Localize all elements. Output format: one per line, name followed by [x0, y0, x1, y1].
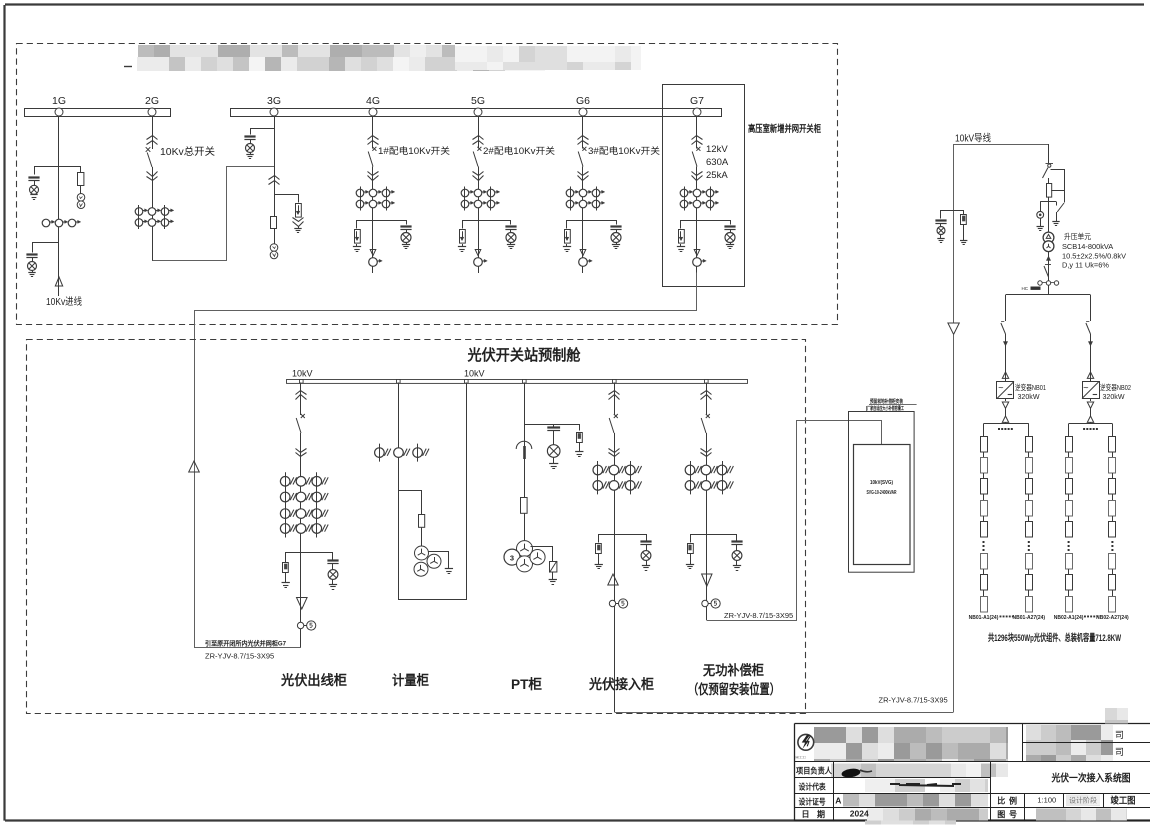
PT cabinet branch wire — [525, 425, 580, 431]
capacitor on 3G branch — [244, 135, 255, 137]
svg-text:4G: 4G — [366, 95, 380, 107]
svg-text:H□□□: H□□□ — [796, 755, 807, 760]
lamp indicator on 1G left branch — [30, 185, 39, 194]
metering branch wire — [399, 491, 422, 515]
title block horizontal line row4 — [795, 807, 1150, 809]
svg-text:12kV: 12kV — [706, 144, 728, 155]
fuse on line tap right — [961, 215, 967, 225]
incoming line arrow on 1G — [55, 277, 62, 286]
bus tap circle G6 — [579, 108, 587, 116]
bus tap circle 5G — [474, 108, 482, 116]
lamp indicator on 5G branch — [506, 233, 516, 243]
PV access cabinet drawout chevrons lower — [609, 449, 620, 453]
HV-room dashed enclosure — [17, 44, 838, 325]
PV module string NB01-A27(24) — [1026, 437, 1033, 453]
CT bank 2x3 on feeder G6 — [566, 189, 574, 197]
PV outgoing cabinet main wire — [300, 433, 302, 648]
svg-text:厂家自适应大小补偿容量工: 厂家自适应大小补偿容量工 — [867, 405, 904, 412]
outgoing arrow on feeder G6 — [580, 250, 586, 256]
feeder 2G wire lower — [152, 167, 154, 261]
drawout contact chevrons G7 lower — [692, 172, 703, 176]
CT bank 2x3 on feeder G7 — [680, 189, 688, 197]
cable head arrow on 10kV line — [948, 323, 959, 334]
CT bank with hatch marks on metering cabinet — [375, 448, 385, 458]
inverter split busbar wire — [1006, 294, 1091, 296]
svg-text:（仅预留安装位置）: （仅预留安装位置） — [688, 681, 780, 697]
censored block above title block corner — [1105, 708, 1128, 724]
outgoing arrow on feeder 4G — [370, 250, 376, 256]
censored project leader row blocks — [831, 764, 1008, 778]
branch wire on feeder 5G — [463, 221, 511, 229]
feeder 2G wire upper — [152, 116, 154, 149]
PV outgoing cabinet breaker x-mark — [301, 414, 305, 418]
feeder 1G lower branch wire — [33, 243, 59, 253]
inverter box inverter NB02 — [1083, 382, 1100, 399]
svg-text:光伏出线柜: 光伏出线柜 — [280, 672, 347, 688]
routing cable from PV access cabinet to PV field — [615, 712, 954, 714]
ground below 4G lamp — [406, 243, 408, 245]
surge arrester on 4G branch — [355, 230, 361, 244]
capacitor on 1G lower branch — [26, 253, 37, 255]
svg-text:图: 图 — [997, 810, 1005, 819]
inverter NB02 DC wire — [1090, 408, 1092, 416]
feeder 3G left branch wire — [251, 129, 275, 135]
svg-text:竣工图: 竣工图 — [1111, 795, 1136, 806]
ground below 3G arrester — [298, 226, 300, 228]
outgoing CT on feeder 4G — [369, 258, 378, 267]
svg-text:设计阶段: 设计阶段 — [1069, 796, 1097, 805]
bus tap square compensation — [705, 380, 709, 384]
svg-text:日: 日 — [802, 810, 810, 819]
feeder G7 wire lower — [696, 167, 698, 274]
svg-text:A: A — [835, 796, 841, 806]
inverter NB01 string header wire — [984, 423, 1029, 425]
svg-text:ZR-YJV-8.7/15-3X95: ZR-YJV-8.7/15-3X95 — [205, 652, 274, 661]
capacitor on PV outgoing cabinet branch right — [327, 559, 338, 561]
routing wire from G7 down to PV outgoing cabinet — [195, 273, 697, 648]
capacitor on PT branch — [547, 426, 560, 428]
compensation cabinet drawout chevrons lower — [701, 449, 712, 453]
svg-text:设计证号: 设计证号 — [799, 797, 826, 807]
dots between string labels right — [1084, 616, 1086, 618]
feeder G6 wire lower — [582, 167, 584, 274]
inverter NB01 branch wire upper — [1005, 295, 1007, 321]
CT bank 2x3 on feeder 4G — [356, 189, 364, 197]
svg-text:10Kv进线: 10Kv进线 — [46, 295, 82, 308]
arrow below inverter NB01 box — [1005, 399, 1007, 402]
ground below PT branch fuse — [579, 442, 581, 452]
svg-text:NB01-A1(24): NB01-A1(24) — [969, 615, 999, 621]
ground below PV outgoing cabinet branch lamp — [332, 580, 334, 585]
svg-text:1G: 1G — [52, 95, 66, 107]
svg-text:320kW: 320kW — [1103, 392, 1125, 401]
title block vertical line right section — [990, 762, 992, 821]
ground below line tap fuse — [963, 225, 965, 241]
ground below 5G arrester — [462, 244, 464, 247]
tap branch header wire — [1040, 201, 1056, 203]
svg-text:预留就地补偿柜安装: 预留就地补偿柜安装 — [870, 398, 903, 405]
cable arrow on compensation cabinet — [702, 574, 712, 586]
svg-text:10kV: 10kV — [292, 369, 313, 379]
fuse F1 on 1G right branch — [78, 173, 84, 186]
svg-text:设计代表: 设计代表 — [799, 782, 827, 792]
G7 cabinet outline box — [663, 85, 745, 287]
svg-text:号: 号 — [1009, 810, 1017, 819]
compensation cabinet wire upper — [706, 383, 708, 416]
PV access cabinet breaker x-mark — [614, 414, 618, 418]
ground below 5G lamp — [510, 243, 512, 245]
ground below G6 arrester — [566, 244, 568, 247]
PV access cabinet instrument branch wire — [599, 535, 647, 543]
PV station 10kV busbar — [287, 380, 748, 384]
svg-text:升压单元: 升压单元 — [1064, 231, 1091, 241]
breaker blade 5G — [473, 152, 478, 167]
fuse on transformer branch — [1047, 184, 1052, 198]
voltage transformer PT on 1G right branch — [77, 194, 85, 202]
feeder 5G wire lower — [478, 167, 480, 274]
ground below G7 arrester — [680, 244, 682, 247]
10kV line vertical wire down — [953, 144, 955, 323]
PV access cabinet main wire — [614, 433, 616, 712]
svg-text:NB01-A27(24): NB01-A27(24) — [1013, 615, 1046, 621]
breaker contact x-mark G7 — [696, 147, 700, 151]
ground below 4G arrester — [356, 244, 358, 247]
feeder 1G main wire — [58, 116, 60, 296]
lamp on PT branch — [547, 445, 560, 458]
energy meter on compensation cabinet — [702, 600, 708, 606]
PT group arrester wire — [531, 547, 553, 562]
svg-text:ZR-YJV-8.7/15-3X95: ZR-YJV-8.7/15-3X95 — [724, 611, 793, 620]
feeder G7 wire upper — [696, 116, 698, 149]
title block vertical label column line — [833, 762, 835, 821]
LV switch blade — [1045, 264, 1051, 266]
inverter NB02 branch wire upper — [1090, 295, 1092, 321]
svg-text:无功补偿柜: 无功补偿柜 — [702, 662, 764, 678]
bus tap circle 4G — [369, 108, 377, 116]
inverter NB02 string header wire — [1069, 423, 1113, 425]
drawout contact chevrons 2G lower — [147, 172, 158, 177]
busbar 3G-G7 — [231, 109, 722, 117]
indicator on tap branch — [1037, 211, 1044, 218]
surge arrester on 5G branch — [460, 230, 466, 244]
voltage transformer PT on 3G — [270, 244, 278, 252]
bus tap circle G7 — [693, 108, 701, 116]
inverter NB02 branch blade switch — [1086, 321, 1089, 323]
PV switching station dashed enclosure — [27, 340, 806, 714]
dots between inverter NB02 strings — [1083, 428, 1085, 430]
compensation cabinet breaker blade — [701, 418, 706, 433]
ground below 3G lamp — [250, 153, 252, 155]
bus tap circle 2G — [148, 108, 156, 116]
svg-text:共1296块550Wp光伏组件、总装机容量712.8KW: 共1296块550Wp光伏组件、总装机容量712.8KW — [988, 632, 1121, 644]
svg-text:项目负责人: 项目负责人 — [796, 766, 833, 776]
breaker blade 4G — [368, 152, 373, 167]
bus tap circle 3G — [270, 108, 278, 116]
outgoing CT on feeder G7 — [693, 258, 702, 267]
feeder 3G main wire — [274, 116, 276, 244]
signature blob project leader — [841, 768, 861, 779]
breaker blade G6 — [578, 152, 583, 167]
lamp on line tap — [940, 224, 942, 227]
svg-text:司: 司 — [1115, 730, 1124, 740]
svg-text:1:100: 1:100 — [1037, 796, 1056, 805]
surge arrester on 3G right branch — [296, 204, 302, 218]
PV access cabinet breaker blade — [609, 418, 614, 433]
svg-text:G7: G7 — [690, 95, 704, 107]
svg-text:PT柜: PT柜 — [511, 676, 542, 692]
10kV line wire to PV access cable — [953, 334, 955, 712]
fuse on PT cabinet — [521, 498, 528, 514]
feeder 3G right branch wire — [275, 195, 299, 203]
metering VT ground wire — [429, 552, 449, 569]
censored drawing number blocks — [1036, 809, 1127, 821]
inverter NB01 branch blade switch — [1001, 321, 1004, 323]
arrow above inverter NB01 — [1002, 372, 1008, 378]
svg-text:~: ~ — [1083, 383, 1088, 393]
svg-text:10kV: 10kV — [464, 369, 485, 379]
breaker blade 2G — [147, 153, 152, 168]
surge arrester of PT group — [550, 562, 557, 573]
svg-text:光伏一次接入系统图: 光伏一次接入系统图 — [1051, 772, 1131, 785]
ground below compensation cabinet branch lamp — [736, 561, 738, 566]
routing wire from 2G to 3G — [153, 167, 275, 261]
CT bank 2x3 on feeder 2G — [135, 208, 143, 216]
svg-text:NB02-A1(24): NB02-A1(24) — [1054, 615, 1084, 621]
feeder 1G upper branch wire — [35, 167, 81, 175]
10kV line horizontal wire — [954, 144, 1050, 146]
transformer branch wire lower — [1048, 197, 1050, 233]
ground of PT group arrester — [549, 579, 557, 581]
ground below 1G lamp — [34, 193, 36, 196]
svg-text:1#配电10Kv开关: 1#配电10Kv开关 — [378, 145, 450, 156]
breaker contact x-mark G6 — [582, 147, 586, 151]
svg-text:引至原开闭所内光伏并网柜G7: 引至原开闭所内光伏并网柜G7 — [205, 639, 286, 648]
PV outgoing cabinet drawout chevrons upper — [296, 391, 307, 395]
svg-text:NB02-A27(24): NB02-A27(24) — [1096, 615, 1129, 621]
ground below PT branch lamp — [553, 457, 555, 463]
up arrow on LV wire — [1046, 256, 1050, 261]
disconnect switch on transformer branch — [1046, 163, 1054, 165]
PV access cabinet wire upper — [614, 383, 616, 416]
capacitor on compensation cabinet branch right — [731, 540, 742, 542]
drawout contact chevrons 5G lower — [473, 172, 484, 176]
bypass loop wire — [1051, 170, 1065, 203]
CT bank 2x3 on feeder 5G — [461, 189, 469, 197]
ground below G7 lamp — [730, 243, 732, 245]
SVG note underline — [869, 404, 917, 406]
censored title pixel blocks — [137, 45, 641, 71]
svg-text:高压室新增并网开关柜: 高压室新增并网开关柜 — [748, 123, 821, 135]
cable arrow on PV outgoing cabinet — [297, 598, 308, 610]
company logo circle with lightning — [798, 734, 814, 750]
PV access cabinet drawout chevrons upper — [609, 391, 620, 395]
compensation cabinet drawout chevrons upper — [701, 391, 712, 395]
ground below line tap lamp — [940, 235, 942, 239]
feeder 4G wire lower — [372, 167, 374, 274]
PV outgoing cabinet breaker blade — [296, 418, 301, 433]
lamp indicator on G6 branch — [611, 233, 621, 243]
PV module string NB02-A27(24) — [1109, 437, 1116, 453]
svg-text:10Kv总开关: 10Kv总开关 — [160, 145, 215, 158]
fuse on PT branch right — [577, 433, 583, 443]
svg-text:计量柜: 计量柜 — [392, 672, 429, 688]
branch wire on feeder G7 — [681, 221, 731, 229]
fuse on PV access cabinet branch left — [596, 544, 602, 554]
PV outgoing cabinet instrument branch wire — [286, 553, 333, 563]
metering cabinet loop wire — [399, 383, 467, 600]
svg-text:D,y 11 Uk=6%: D,y 11 Uk=6% — [1062, 261, 1109, 270]
svg-text:630A: 630A — [706, 157, 729, 168]
breaker contact x-mark 5G — [477, 147, 481, 151]
dots between string labels left — [1000, 616, 1002, 618]
outgoing arrow on feeder G7 — [694, 250, 700, 256]
transformer LV wire — [1048, 252, 1050, 293]
bus tap square access — [613, 380, 617, 384]
bus tap square metering-left — [397, 380, 401, 384]
svg-text:司: 司 — [1115, 747, 1124, 757]
svg-text:光伏接入柜: 光伏接入柜 — [588, 676, 654, 692]
censored design representative row blocks — [865, 779, 988, 792]
title block horizontal line row1 — [795, 761, 1150, 763]
title block horizontal line row2 — [795, 777, 990, 779]
wire to G7 junction — [194, 647, 301, 649]
capacitor on 1G left branch — [28, 176, 39, 178]
lamp indicator on 3G branch — [246, 144, 255, 153]
fuse on metering branch — [419, 515, 425, 528]
outgoing CT on feeder G6 — [579, 258, 588, 267]
energy meter on PV access cabinet — [609, 600, 615, 606]
PV outgoing cabinet drawout chevrons lower — [296, 449, 307, 453]
ground below indicator — [1040, 218, 1042, 226]
svg-text:SCB14-800kVA: SCB14-800kVA — [1062, 242, 1113, 251]
svg-text:10.5±2x2.5%/0.8kV: 10.5±2x2.5%/0.8kV — [1062, 251, 1126, 260]
svg-text:G6: G6 — [576, 95, 590, 107]
breaker contact x-mark 4G — [372, 147, 376, 151]
line tap branch wire — [941, 211, 964, 219]
drawout contact chevrons G6 upper — [578, 136, 589, 140]
incoming arrow on G7 routing wire — [189, 461, 200, 472]
bus tap circle 1G — [55, 108, 63, 116]
fuse on compensation cabinet branch left — [688, 544, 694, 554]
lamp on PV access cabinet branch right — [641, 551, 651, 561]
svg-text:HC: HC — [1022, 286, 1029, 291]
inverter NB02 branch wire mid — [1090, 334, 1092, 382]
svg-text:3G: 3G — [267, 95, 281, 107]
feeder G6 wire upper — [582, 116, 584, 149]
CT bank with hatch marks on PV outgoing cabinet — [280, 477, 290, 487]
bus tap square metering-right — [465, 380, 469, 384]
svg-text:25kA: 25kA — [706, 170, 728, 181]
PT cabinet main wire — [524, 383, 526, 542]
CT bank with hatch marks on compensation cabinet — [685, 465, 695, 475]
dots between inverter NB01 strings — [998, 428, 1000, 430]
svg-text:~: ~ — [998, 383, 1003, 393]
inverter NB01 DC wire — [1005, 408, 1007, 416]
svg-text:期: 期 — [817, 809, 825, 819]
drawout contact chevrons 2G upper — [147, 136, 158, 140]
fuse on feeder 3G — [271, 217, 277, 229]
inverter box inverter NB01 — [997, 382, 1014, 399]
bypass blade — [1057, 203, 1064, 212]
metering 3-winding voltage transformer — [415, 546, 429, 560]
SVG unit outer box — [849, 412, 915, 573]
svg-text:10kV(SVG): 10kV(SVG) — [870, 480, 893, 486]
transformer branch wire upper — [1048, 144, 1050, 163]
drawout contact chevrons 5G upper — [473, 136, 484, 140]
PV module string NB02-A1(24) — [1066, 437, 1073, 453]
branch wire on feeder G6 — [567, 221, 617, 229]
outgoing CT on feeder 5G — [474, 258, 483, 267]
capacitor on 5G branch — [505, 225, 516, 227]
outgoing arrow on feeder 5G — [475, 250, 481, 256]
CT bank with hatch marks on PV access cabinet — [593, 465, 603, 475]
ground below bypass blade — [1056, 212, 1058, 222]
drawout contact chevrons G7 upper — [692, 136, 703, 140]
svg-text:2G: 2G — [145, 95, 159, 107]
censored lower rows blocks — [843, 794, 988, 825]
ground below PV outgoing cabinet branch fuse — [285, 573, 287, 584]
signature dashes design representative — [890, 784, 961, 786]
LV terminal assembly — [1038, 281, 1042, 285]
fuse on PV outgoing cabinet branch left — [283, 563, 289, 573]
branch wire on feeder 4G — [357, 221, 407, 229]
CT row on feeder 1G — [42, 219, 50, 227]
lamp indicator on G7 branch — [725, 233, 735, 243]
drawout contact chevrons 3G — [269, 176, 280, 180]
svg-text:5G: 5G — [471, 95, 485, 107]
energy meter on PV outgoing cabinet — [297, 622, 303, 628]
arrow on inverter NB01 DC wire — [1002, 416, 1008, 422]
PV module string NB01-A1(24) — [981, 437, 988, 453]
cable arrow on PV access cabinet — [608, 574, 618, 585]
SVG unit inner box — [854, 445, 911, 565]
svg-text:3: 3 — [510, 553, 514, 562]
arrow below inverter NB02 box — [1090, 399, 1092, 402]
busbar 1G-2G — [25, 109, 171, 117]
svg-text:逆变器NB02: 逆变器NB02 — [1100, 383, 1131, 392]
svg-text:320kW: 320kW — [1018, 392, 1040, 401]
svg-text:2024: 2024 — [850, 809, 869, 819]
lamp indicator on 4G branch — [401, 233, 411, 243]
compensation cabinet main wire — [706, 433, 708, 620]
title block vertical line company cell — [1022, 724, 1024, 762]
svg-text:3#配电10Kv开关: 3#配电10Kv开关 — [588, 145, 660, 156]
title block vertical line scale cells3 — [1103, 793, 1105, 808]
lamp indicator on 1G lower branch — [28, 262, 37, 271]
svg-text:比: 比 — [997, 796, 1005, 806]
down arrow on inverter NB01 branch — [1003, 342, 1007, 347]
capacitor on line tap — [935, 219, 946, 221]
down arrow on inverter NB02 branch — [1088, 342, 1092, 347]
inverter NB01 branch wire mid — [1005, 334, 1007, 382]
ground below PV access cabinet branch fuse — [598, 554, 600, 565]
capacitor on G6 branch — [610, 225, 621, 227]
feeder 5G wire upper — [478, 116, 480, 149]
small dash before censored title — [124, 66, 132, 68]
PT 3-phase voltage transformer group — [517, 541, 533, 557]
ground below G6 lamp — [616, 243, 618, 245]
compensation cabinet instrument branch wire — [691, 535, 737, 543]
step-up transformer windings — [1043, 232, 1054, 243]
censor blocks over design stage cell — [1066, 795, 1100, 807]
breaker blade G7 — [692, 152, 697, 167]
surge arrester on G7 branch — [679, 230, 685, 244]
capacitor on G7 branch — [724, 225, 735, 227]
feeder 4G wire upper — [372, 116, 374, 149]
drawout contact chevrons 4G lower — [368, 172, 379, 176]
drawout contact chevrons G6 lower — [578, 172, 589, 176]
censored company name blocks — [814, 725, 1113, 762]
